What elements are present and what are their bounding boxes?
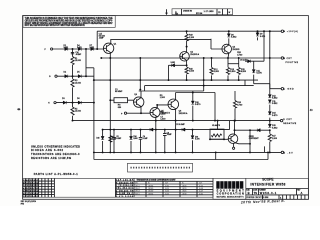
wire return bus riser 2 — [267, 152, 269, 159]
svg-text:G: G — [49, 76, 51, 78]
wire diode spur y61.2 — [245, 60, 264, 62]
svg-text:S-870: S-870 — [256, 73, 262, 75]
diode D5 — [78, 75, 81, 78]
svg-text:S-870: S-870 — [260, 36, 266, 38]
svg-text:F: F — [45, 49, 47, 51]
svg-text:CAP 100 MF: CAP 100 MF — [116, 179, 133, 182]
svg-text:W: W — [229, 12, 231, 14]
wire Q6 base link — [157, 105, 168, 108]
input terminal 1 — [51, 48, 53, 50]
svg-text:D-662: D-662 — [199, 193, 203, 195]
svg-text:S-862: S-862 — [90, 47, 95, 49]
wire R8 feed — [110, 99, 134, 101]
diode D9 — [257, 31, 259, 40]
input terminal 3 — [54, 102, 56, 104]
transistor Q2 — [180, 52, 190, 62]
svg-text:SIZE: SIZE — [246, 189, 249, 191]
resistor R10 — [185, 67, 188, 74]
svg-text:B CRT: B CRT — [284, 58, 293, 60]
Q7 emitter test point — [233, 144, 235, 148]
svg-text:1N 2-870: 1N 2-870 — [240, 59, 247, 61]
wire Q7 collector — [234, 121, 236, 135]
wire bus y58 — [101, 57, 281, 59]
diode D1 — [65, 47, 68, 50]
svg-text:D-007: D-007 — [199, 191, 203, 193]
svg-text:H: H — [48, 103, 50, 105]
pot box R8 — [114, 98, 128, 103]
svg-text:C8 6.8MF: C8 6.8MF — [176, 124, 186, 126]
wire feedback bus y80 — [94, 79, 258, 81]
wire vert x245 — [244, 80, 246, 86]
svg-text:6,800: 6,800 — [241, 71, 247, 73]
wire Q7 collector spur — [235, 129, 270, 131]
wire x93.9 long vertical — [93, 68, 95, 160]
svg-text:.01MF: .01MF — [167, 134, 172, 136]
svg-text:R 2N1305 TR: R 2N1305 TR — [116, 182, 134, 184]
resistor R3 — [71, 79, 74, 87]
svg-text:2 R 1 5 C 2 1 D 4: 2 R 1 5 C 2 1 D 4 — [23, 182, 39, 185]
svg-text:0.1MF: 0.1MF — [143, 138, 148, 140]
diode D18 — [182, 128, 185, 131]
wire collector bus y92.5 — [176, 92, 215, 94]
diode D12 — [268, 95, 271, 98]
resistor R1 — [71, 57, 74, 65]
wire x86 riser — [85, 49, 87, 76]
diode D13 — [268, 100, 271, 103]
svg-text:S-870 DIODE: S-870 DIODE — [116, 196, 134, 198]
input terminal 2 — [55, 75, 57, 77]
svg-text:2N1305 A: 2N1305 A — [190, 53, 199, 56]
wire vert x110 — [109, 58, 111, 152]
wire Q7 base — [210, 138, 228, 140]
svg-text:D CRT: D CRT — [283, 119, 292, 121]
svg-text:1N645: 1N645 — [182, 191, 187, 193]
svg-text:2894-2: 2894-2 — [135, 188, 140, 190]
svg-text:A 2N1305 TR: A 2N1305 TR — [116, 189, 134, 192]
svg-text:DEC 862 DIO: DEC 862 DIO — [116, 188, 134, 190]
svg-text:2N1305: 2N1305 — [148, 188, 153, 190]
diode D10 — [192, 93, 194, 121]
svg-text:P: P — [121, 113, 123, 115]
notice box top-left — [23, 16, 115, 28]
capacitor C14 — [71, 52, 74, 53]
resistor R7 — [109, 136, 112, 143]
svg-text:68 MMF: 68 MMF — [115, 91, 123, 93]
diode D3 — [63, 101, 66, 104]
svg-text:OUT: OUT — [165, 183, 168, 185]
svg-text:680: 680 — [118, 107, 122, 109]
svg-text:IN: IN — [148, 183, 150, 185]
diode DA — [172, 64, 175, 67]
svg-text:DEC 16-(1C)-1107A: DEC 16-(1C)-1107A — [21, 200, 37, 203]
transistor Q4 — [134, 97, 144, 107]
svg-text:2N1304: 2N1304 — [148, 185, 153, 187]
svg-text:A +10V(A): A +10V(A) — [284, 30, 299, 33]
svg-text:CD: CD — [218, 12, 221, 14]
transistor Q7 — [228, 134, 238, 144]
wire feedback bus y91 — [139, 90, 204, 92]
notes block — [31, 144, 80, 159]
svg-text:S-870: S-870 — [195, 139, 200, 141]
revision table — [172, 9, 233, 16]
diode DB — [248, 60, 251, 63]
svg-text:1,800: 1,800 — [272, 138, 278, 140]
svg-text:15,000: 15,000 — [75, 82, 82, 84]
revision arrow — [165, 9, 168, 15]
svg-text:5,000: 5,000 — [214, 71, 220, 73]
wire vert x264 — [263, 31, 265, 61]
svg-text:S-862: S-862 — [272, 103, 278, 105]
svg-text:PRINTED CIRCUIT BD: PRINTED CIRCUIT BD — [247, 197, 266, 199]
resistor R19 — [185, 34, 188, 41]
wire diode branch riser — [168, 65, 170, 80]
wire Q1 collector — [110, 40, 112, 44]
svg-text:S-862: S-862 — [77, 47, 82, 49]
svg-text:D3: D3 — [62, 98, 65, 100]
wire Q2 emitter chain — [186, 60, 188, 80]
svg-text:1,500: 1,500 — [160, 97, 166, 99]
terminal E -8V — [281, 151, 293, 154]
svg-text:TS: TS — [254, 191, 258, 195]
svg-text:1 2 4 C 1 R S 2 1: 1 2 4 C 1 R S 2 1 — [23, 179, 39, 182]
wire return bus riser 1 — [215, 152, 217, 159]
svg-text:D-001: D-001 — [199, 185, 203, 187]
svg-text:207th Nov’58 R.Best B.: 207th Nov’58 R.Best B. — [240, 199, 285, 205]
svg-text:D2: D2 — [64, 72, 67, 74]
svg-text:D16: D16 — [96, 137, 99, 139]
svg-text:1N748: 1N748 — [182, 193, 187, 195]
svg-text:REV: REV — [175, 13, 178, 15]
svg-text:S-870: S-870 — [272, 115, 278, 117]
svg-text:15,000: 15,000 — [75, 111, 82, 113]
diode D17 — [130, 130, 132, 153]
drawing frame border — [23, 16, 309, 200]
transistor Q3 — [222, 44, 232, 54]
wire Q3 base — [211, 39, 222, 49]
wire Q1 emitter — [109, 53, 111, 58]
diode D21 — [257, 129, 260, 132]
svg-text:3009-1: 3009-1 — [135, 193, 140, 195]
delay line dashed box — [128, 163, 193, 172]
wire Q2 collector chain — [186, 31, 188, 52]
svg-text:REV: REV — [297, 189, 300, 191]
svg-text:CORPORATION: CORPORATION — [217, 192, 244, 195]
svg-text:2N1309: 2N1309 — [148, 191, 153, 193]
svg-text:4 1 D 2 R 1 C 5 2: 4 1 D 2 R 1 C 5 2 — [23, 187, 39, 190]
resistor R5 — [71, 107, 74, 115]
capacitor C4 — [139, 130, 143, 153]
diode D15 — [268, 124, 271, 127]
svg-text:C GND: C GND — [284, 89, 294, 91]
svg-text:1-17-1958: 1-17-1958 — [204, 11, 215, 13]
wire feedback bus y85.6 — [145, 86, 254, 91]
wire low bus riser — [229, 121, 231, 130]
terminal A +10V — [281, 30, 298, 33]
svg-text:S-862: S-862 — [64, 47, 69, 49]
wire Q5 emitter — [155, 117, 157, 153]
wire vert x203.7 — [203, 58, 205, 91]
wire input chain 2 — [57, 75, 94, 77]
wire Q4 emitter — [141, 107, 150, 114]
title block — [246, 177, 309, 199]
resistor R15 — [238, 58, 240, 80]
svg-text:E -8V: E -8V — [284, 152, 294, 154]
resistor R13 — [226, 67, 229, 74]
svg-text:D-003: D-003 — [199, 188, 203, 190]
svg-text:.01MF: .01MF — [99, 37, 104, 39]
diode D14 — [268, 112, 271, 115]
conversion chart — [134, 178, 213, 197]
svg-text:RESISTORS ARE 1/4W,5%: RESISTORS ARE 1/4W,5% — [31, 156, 72, 160]
svg-text:4,700: 4,700 — [237, 54, 243, 56]
svg-text:1,500: 1,500 — [160, 119, 166, 121]
rheostat box 65 AMPS — [210, 121, 224, 140]
svg-text:1 C 2 1 D 5 2 R 1: 1 C 2 1 D 5 2 R 1 — [23, 185, 39, 187]
svg-text:6.8MF: 6.8MF — [116, 138, 121, 140]
svg-text:OUT: OUT — [199, 183, 202, 185]
resistor R12 — [211, 58, 213, 80]
svg-text:Q4: Q4 — [134, 94, 138, 96]
svg-text:D6: D6 — [77, 98, 80, 100]
terminal C GND — [281, 88, 294, 91]
svg-text:2,200: 2,200 — [189, 37, 195, 39]
wire lower return bus — [94, 159, 268, 161]
capacitor C6 — [112, 130, 116, 153]
registration mark left margin — [17, 108, 20, 110]
svg-text:S-862: S-862 — [165, 185, 169, 187]
wire vert right x269.8 — [269, 31, 271, 152]
svg-text:R 1/4W 5% C: R 1/4W 5% C — [116, 193, 134, 195]
wire Q4 collector — [139, 58, 142, 98]
svg-text:S-862: S-862 — [272, 98, 278, 100]
svg-text:S-862: S-862 — [171, 62, 176, 64]
svg-text:65 AMPS: 65 AMPS — [212, 124, 221, 127]
wire Q3 emitter — [227, 53, 230, 80]
wire mid bus y120.6 — [73, 120, 281, 122]
svg-text:S-870: S-870 — [165, 188, 169, 190]
wire Q7 emitter — [235, 143, 250, 144]
svg-text:2N1305: 2N1305 — [232, 49, 240, 51]
wire diode spur y65.3 — [169, 64, 187, 66]
svg-text:CURRENT: CURRENT — [249, 138, 260, 140]
svg-text:D5: D5 — [77, 72, 80, 74]
capacitor C9 — [163, 130, 167, 153]
diode D8 — [228, 31, 230, 45]
transistor Q5 — [150, 107, 160, 117]
svg-text:SCOPE: SCOPE — [262, 177, 273, 181]
wire second bus — [110, 39, 211, 41]
wire terminal P — [127, 112, 141, 114]
svg-text:CODE: CODE — [253, 189, 257, 191]
wire vert x215 — [214, 93, 216, 121]
svg-text:CHANGE NO: CHANGE NO — [183, 10, 193, 13]
diode D11 chain — [254, 61, 282, 88]
wire emitter link y63.7 — [228, 63, 239, 65]
svg-text:S-800: S-800 — [165, 191, 169, 193]
wire Q6 collector — [175, 93, 177, 100]
terminal D CRT NEGATIVE — [280, 119, 296, 125]
svg-text:.001MF: .001MF — [75, 54, 81, 56]
svg-text:A: A — [301, 191, 303, 195]
wire input chain 1 — [53, 48, 104, 50]
diode D7 — [91, 47, 94, 50]
diode D20 — [150, 128, 153, 131]
svg-text:TRANSISTORS ARE DEC2894-3: TRANSISTORS ARE DEC2894-3 — [31, 152, 80, 156]
svg-text:1N270: 1N270 — [182, 188, 187, 190]
diode D19 — [192, 130, 194, 153]
transistor Q6 — [168, 99, 179, 110]
svg-text:S-802: S-802 — [165, 193, 169, 195]
svg-text:1,800: 1,800 — [160, 114, 166, 116]
svg-text:NUMBER: NUMBER — [259, 189, 266, 191]
wire input chain 3 — [56, 102, 94, 104]
svg-text:d: d — [217, 183, 220, 189]
wire low bus y129.6 — [103, 129, 230, 131]
svg-text:2 TR-2894-3B: 2 TR-2894-3B — [116, 185, 134, 187]
svg-text:UNLESS OTHERWISE INDICATED: UNLESS OTHERWISE INDICATED — [31, 144, 80, 148]
svg-text:1 5 R 1 2 C D 1 4: 1 5 R 1 2 C D 1 4 — [23, 190, 39, 193]
svg-text:g: g — [224, 183, 227, 189]
svg-text:1N276: 1N276 — [182, 185, 187, 187]
svg-text:NEGATIVE: NEGATIVE — [283, 122, 297, 125]
svg-text:B: B — [248, 191, 250, 195]
wire bus corner to Q1 base — [96, 31, 98, 49]
wire stub near rail — [264, 146, 266, 152]
parts list table — [23, 178, 134, 198]
resistor R16 — [234, 91, 236, 121]
svg-text:S-862: S-862 — [272, 127, 278, 129]
svg-text:3,600: 3,600 — [133, 138, 137, 140]
svg-text:MAYNARD, MASSACHUSETTS: MAYNARD, MASSACHUSETTS — [217, 195, 244, 198]
svg-text:4,700: 4,700 — [237, 104, 243, 106]
svg-text:S-870: S-870 — [195, 104, 201, 106]
DEC logo block — [213, 178, 246, 199]
svg-text:40: 40 — [310, 109, 313, 112]
wire bottom rail — [94, 151, 281, 153]
wire top bus +10V — [97, 30, 281, 32]
terminal B CRT POSITIVE — [281, 57, 298, 64]
diode D2 — [65, 75, 68, 78]
svg-text:2894-1: 2894-1 — [135, 185, 140, 187]
diode D6 — [78, 101, 81, 104]
wire jog y67.8 — [86, 67, 94, 69]
svg-text:DIODES ARE S-862: DIODES ARE S-862 — [31, 148, 64, 152]
diode D4 — [78, 47, 81, 50]
svg-text:Q1: Q1 — [114, 43, 118, 45]
resistor R17 — [268, 134, 271, 142]
svg-text:NOT BE REPRODUCED WITHOUT WRIT: NOT BE REPRODUCED WITHOUT WRITTEN PERMIS… — [25, 25, 85, 27]
svg-text:PARTS LIST A-PL-W958-0-1: PARTS LIST A-PL-W958-0-1 — [34, 172, 79, 176]
svg-text:A: A — [175, 10, 177, 14]
svg-text:POSITIVE: POSITIVE — [286, 62, 299, 64]
svg-text:2 C 1 4 1 R 2 S 1: 2 C 1 4 1 R 2 S 1 — [23, 192, 39, 195]
svg-text:5,600: 5,600 — [230, 71, 236, 73]
svg-text:15,000: 15,000 — [75, 60, 82, 62]
svg-text:PRO: PRO — [21, 203, 25, 205]
wire divider ladder — [72, 49, 74, 121]
transistor Q1 — [103, 43, 113, 53]
wire Q5 collector — [156, 105, 158, 108]
svg-text:2894-3: 2894-3 — [135, 191, 140, 193]
svg-text:a: a — [236, 183, 239, 189]
svg-text:W958-0-1: W958-0-1 — [260, 191, 277, 195]
svg-text:ECO 104: ECO 104 — [196, 13, 202, 15]
wire x250 drop — [249, 130, 251, 152]
svg-text:2N2904: 2N2904 — [148, 193, 153, 195]
wire Q6 emitter — [175, 109, 177, 153]
svg-text:1,500: 1,500 — [189, 71, 195, 73]
svg-text:INTENSIFIER W958: INTENSIFIER W958 — [250, 182, 285, 186]
svg-text:S-862: S-862 — [231, 37, 237, 39]
svg-text:1 R 2 C 5 1 4 D 2: 1 R 2 C 5 1 4 D 2 — [23, 195, 39, 198]
svg-text:2N1305 A: 2N1305 A — [179, 112, 188, 115]
diode D16 — [102, 130, 104, 153]
svg-text:IN: IN — [182, 183, 184, 185]
